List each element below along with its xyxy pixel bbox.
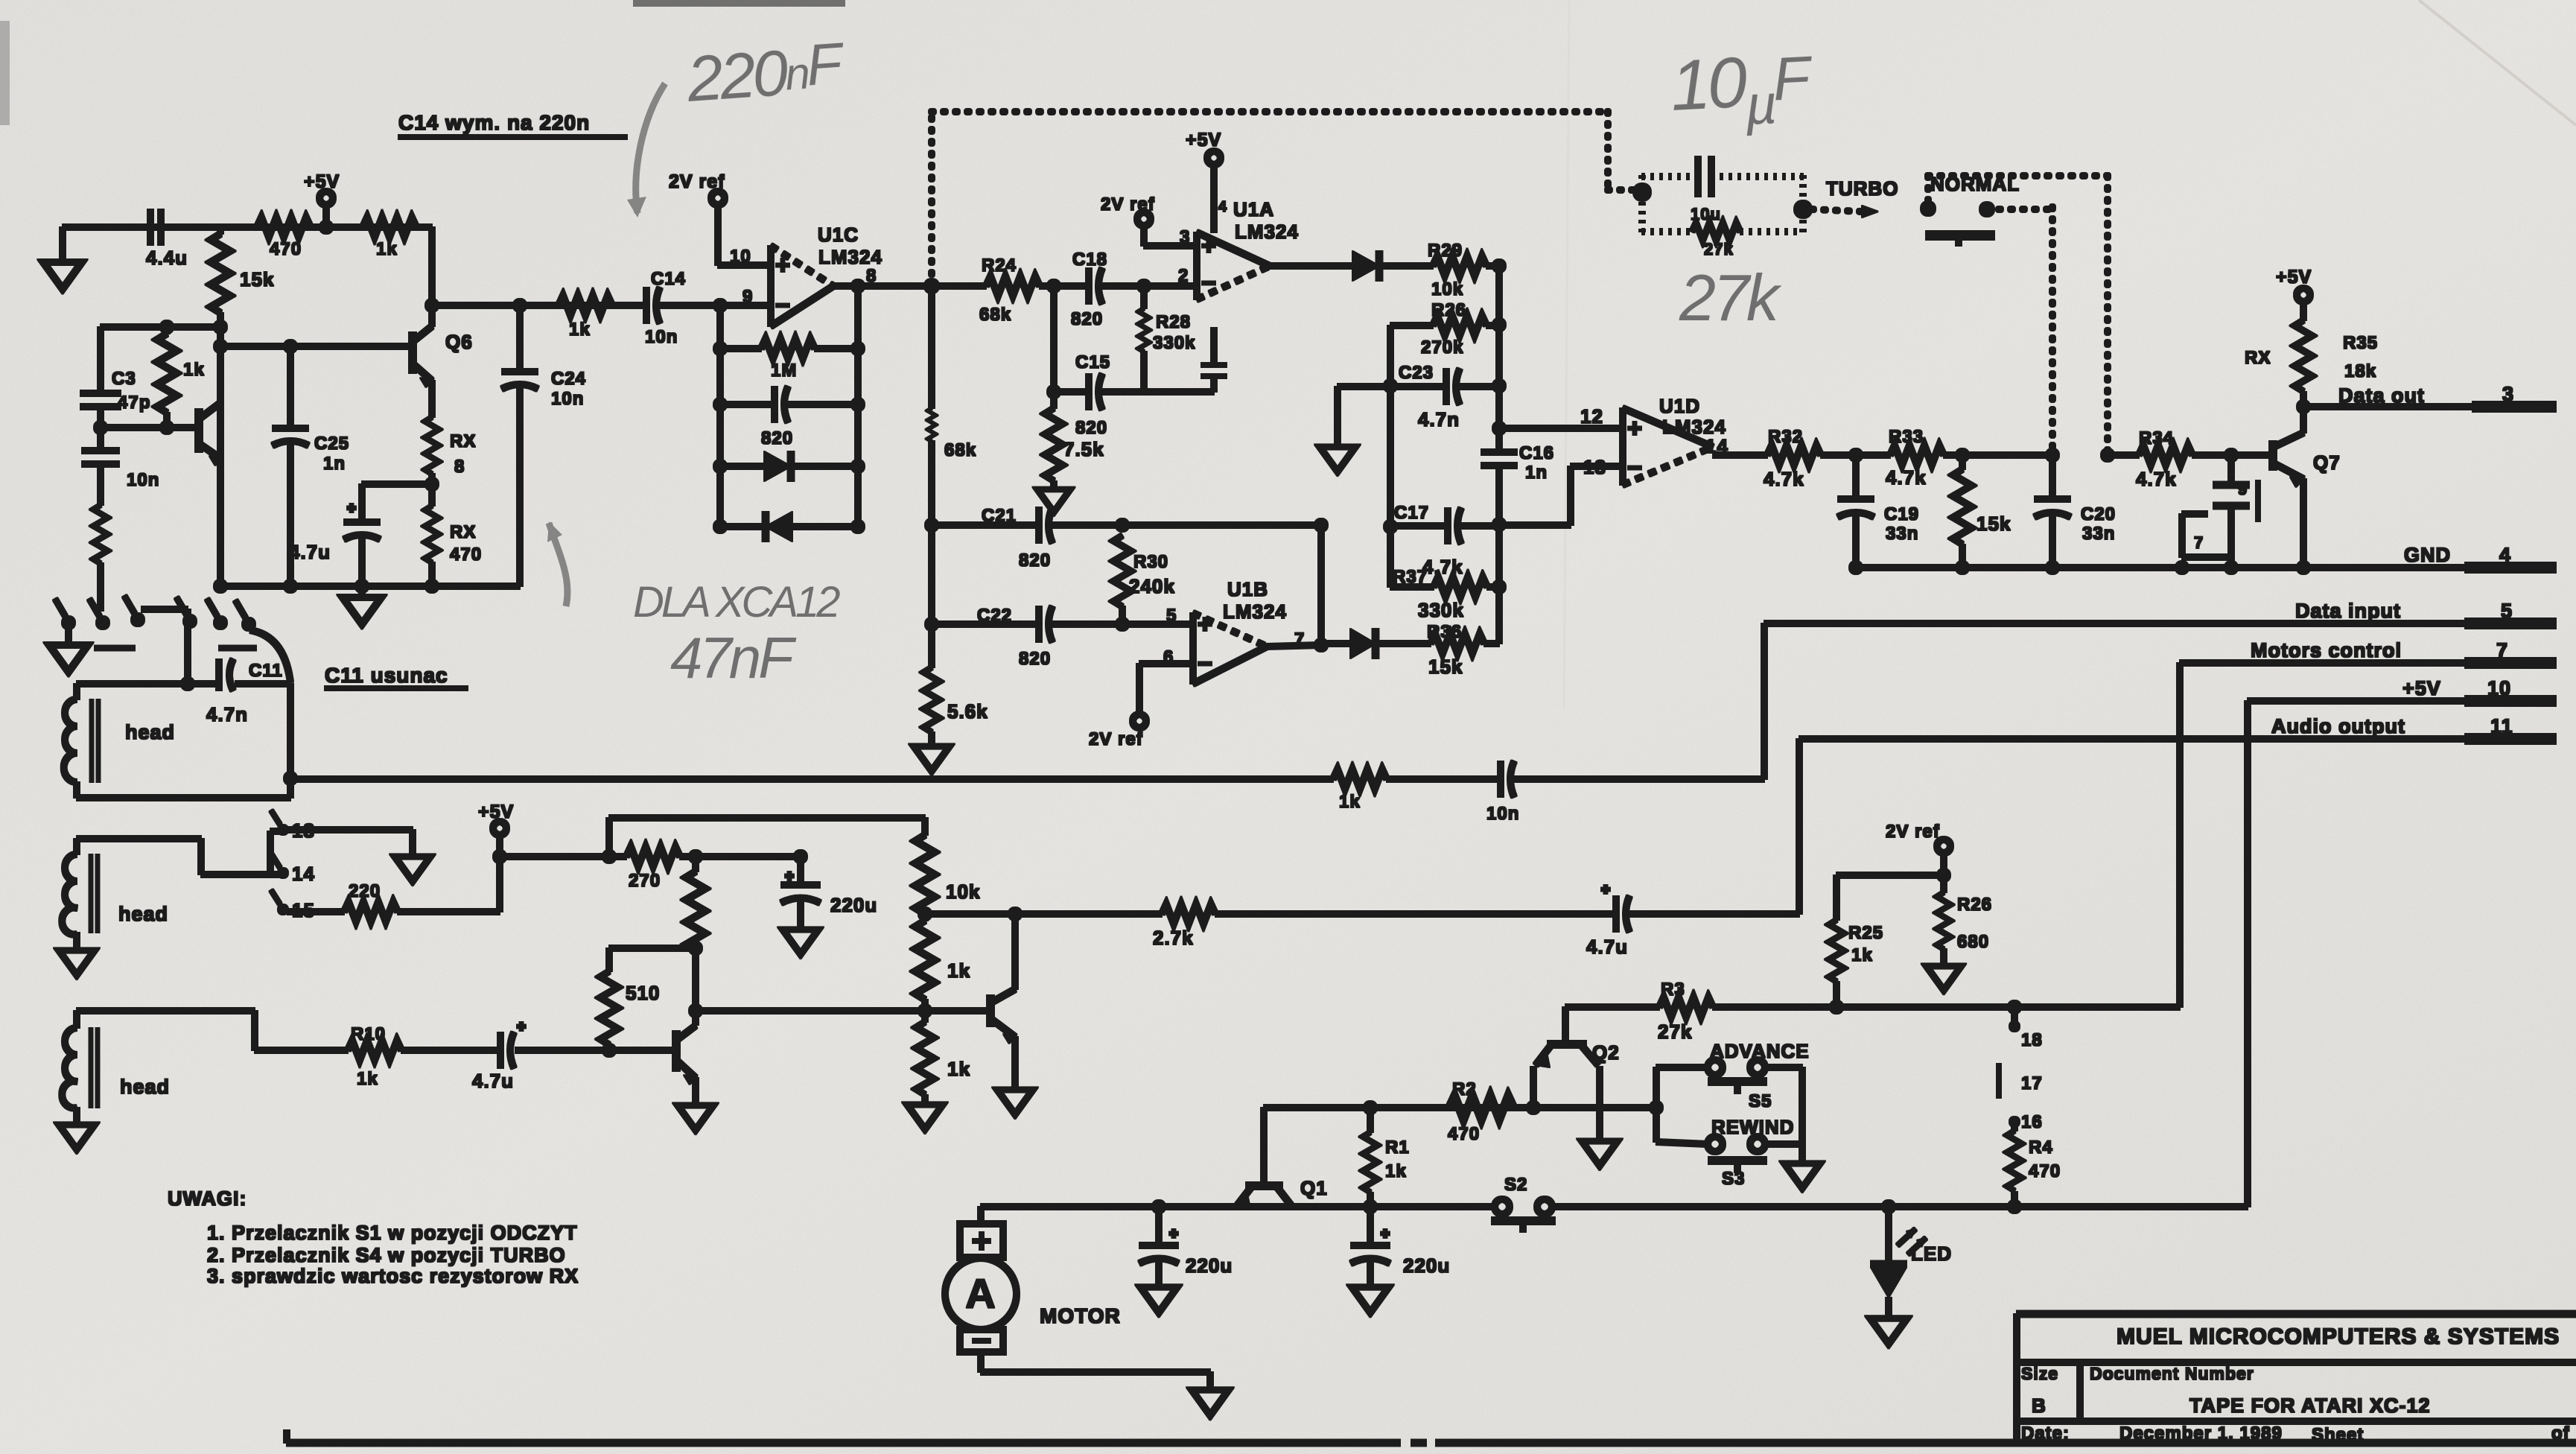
ground <box>678 1105 713 1130</box>
svg-text:C24: C24 <box>551 369 586 389</box>
svg-text:10n: 10n <box>127 470 159 490</box>
resistor R2 470 <box>1448 1079 1513 1144</box>
resistor 5.6k <box>923 667 988 745</box>
svg-text:8: 8 <box>866 266 877 286</box>
svg-text:4.7u: 4.7u <box>289 541 331 563</box>
svg-text:18: 18 <box>2021 1030 2043 1050</box>
ground pin13 <box>395 857 430 881</box>
ground under pin1 <box>49 629 88 672</box>
svg-text:1k: 1k <box>1851 945 1873 965</box>
svg-text:1k: 1k <box>183 360 205 380</box>
svg-text:U1C: U1C <box>818 223 859 246</box>
svg-text:3: 3 <box>1180 227 1190 247</box>
svg-text:8: 8 <box>454 457 465 477</box>
svg-text:C3: C3 <box>112 369 136 389</box>
resistor RX 470 <box>425 506 482 586</box>
capacitor 4.7u audio <box>1586 885 1799 958</box>
capacitor C24 10n <box>502 299 586 586</box>
svg-text:270k: 270k <box>1421 337 1463 358</box>
svg-text:470: 470 <box>270 239 302 259</box>
svg-text:R36: R36 <box>1427 622 1462 642</box>
motors control wire R3 <box>1565 980 2180 1043</box>
resistor 220 <box>287 857 500 921</box>
ground <box>1140 1287 1177 1312</box>
svg-text:+5V: +5V <box>304 171 340 192</box>
svg-text:1k: 1k <box>1339 792 1361 812</box>
svg-text:R29: R29 <box>1428 241 1463 261</box>
svg-text:470: 470 <box>450 545 482 565</box>
Data out bus 3 <box>2303 383 2556 407</box>
svg-text:10n: 10n <box>1486 804 1519 824</box>
head 1 box <box>64 677 290 798</box>
wire into inverting input <box>720 302 771 308</box>
svg-text:R37: R37 <box>1393 567 1428 587</box>
ground <box>783 930 818 954</box>
transistor Q5 <box>199 402 221 466</box>
wire riser audio output <box>1796 739 1802 914</box>
2V ref divider R25 / 680 <box>1836 822 1950 882</box>
svg-text:14: 14 <box>292 863 315 885</box>
svg-text:ADVANCE: ADVANCE <box>1710 1040 1810 1062</box>
wire pin13 to ground <box>287 830 413 855</box>
wire base Q6 <box>220 343 413 349</box>
resistor 1M feedback <box>713 339 865 381</box>
output wire U1C <box>833 283 986 289</box>
svg-text:1k: 1k <box>357 1069 378 1089</box>
svg-text:S3: S3 <box>1722 1169 1745 1189</box>
svg-text:1k: 1k <box>947 959 970 982</box>
ground <box>914 746 950 771</box>
transistor Q6 <box>413 326 473 387</box>
resistor R33 4.7k <box>1886 427 1944 489</box>
svg-text:2. Przelacznik S4 w pozycji TU: 2. Przelacznik S4 w pozycji TURBO <box>207 1244 566 1266</box>
svg-text:820: 820 <box>1019 649 1051 669</box>
svg-text:9: 9 <box>2238 480 2248 498</box>
resistor 15k vertical <box>1953 455 2011 568</box>
svg-text:Audio output: Audio output <box>2271 715 2405 737</box>
resistor 510 <box>600 942 702 1050</box>
+5V bus 10 <box>2248 677 2556 1207</box>
transistor Q4 <box>990 907 1022 1088</box>
base wire Q1 <box>1264 1101 1656 1114</box>
svg-text:27k: 27k <box>1679 261 1782 334</box>
svg-text:S2: S2 <box>1504 1175 1527 1195</box>
svg-text:5.6k: 5.6k <box>947 700 988 723</box>
svg-text:68k: 68k <box>944 440 976 460</box>
svg-text:Size: Size <box>2021 1364 2058 1383</box>
svg-text:4.7n: 4.7n <box>206 703 248 726</box>
svg-text:330k: 330k <box>1418 599 1464 621</box>
output wire U1D <box>1713 452 1767 458</box>
svg-text:330k: 330k <box>1153 333 1195 353</box>
svg-text:R32: R32 <box>1768 427 1803 447</box>
svg-text:240k: 240k <box>1129 575 1175 597</box>
connector pins row <box>55 596 256 648</box>
capacitor C14 10n <box>645 269 720 347</box>
LED <box>1871 1207 1952 1317</box>
wire stub to 4.7u <box>362 481 432 487</box>
pencil arrow to C14 <box>636 83 665 213</box>
resistor R29 10k <box>1428 241 1499 299</box>
resistor R37 330k <box>1390 567 1499 621</box>
svg-text:GND: GND <box>2404 544 2451 566</box>
svg-text:270: 270 <box>629 871 661 891</box>
svg-text:C17: C17 <box>1394 503 1429 523</box>
svg-text:Data input: Data input <box>2295 600 2401 622</box>
svg-text:10k: 10k <box>1431 279 1463 299</box>
svg-text:UWAGI:: UWAGI: <box>168 1187 247 1210</box>
svg-text:10n: 10n <box>645 327 678 347</box>
ground <box>1870 1318 1906 1344</box>
wire to C14 <box>432 302 646 308</box>
svg-text:Document Number: Document Number <box>2090 1364 2254 1383</box>
svg-text:220u: 220u <box>830 894 877 916</box>
svg-text:R30: R30 <box>1133 552 1168 572</box>
svg-text:C20: C20 <box>2081 504 2116 524</box>
svg-text:C15: C15 <box>1075 352 1110 372</box>
svg-text:4: 4 <box>1218 199 1227 215</box>
capacitor C18 820 <box>1071 250 1197 329</box>
capacitor 4.7u <box>472 1022 676 1092</box>
svg-text:10n: 10n <box>551 389 584 409</box>
capacitor 820p feedback <box>713 387 865 448</box>
svg-text:4.7k: 4.7k <box>1886 466 1927 489</box>
svg-text:TURBO: TURBO <box>1826 177 1898 200</box>
resistor 470 <box>257 218 311 259</box>
svg-text:B: B <box>2032 1394 2047 1417</box>
text C14 wym na 220n <box>398 111 627 137</box>
svg-text:S5: S5 <box>1749 1091 1772 1111</box>
svg-text:C21: C21 <box>982 506 1017 526</box>
dotted stub with arrow <box>1812 206 1878 218</box>
svg-text:17: 17 <box>2021 1073 2043 1093</box>
base wire with R10 and 4.7u <box>255 1047 348 1053</box>
transistor Q1 <box>1236 1108 1328 1209</box>
svg-text:TAPE FOR ATARI XC-12: TAPE FOR ATARI XC-12 <box>2189 1394 2431 1417</box>
ADVANCE / REWIND switch box <box>1650 1040 1810 1189</box>
svg-text:2.7k: 2.7k <box>1153 927 1194 949</box>
svg-text:C14: C14 <box>651 269 686 289</box>
+5V above U1A <box>1186 130 1227 232</box>
GND rail 4 <box>1849 544 2556 574</box>
resistor vertical left chain <box>93 505 107 563</box>
2V ref U1B <box>1089 664 1193 749</box>
pin 14 <box>271 854 315 885</box>
svg-text:1M: 1M <box>771 361 797 381</box>
+5V symbol <box>478 801 514 863</box>
op-amp U1C <box>742 223 882 326</box>
svg-text:U1A: U1A <box>1233 198 1274 220</box>
stub pin6 hook into head1 <box>250 630 290 682</box>
svg-text:820: 820 <box>1019 550 1051 571</box>
svg-text:5: 5 <box>1166 606 1177 626</box>
wire top rail <box>63 224 432 230</box>
svg-text:47nF: 47nF <box>670 625 797 691</box>
resistor R32 4.7k <box>1764 427 1821 490</box>
head 2 <box>62 831 279 949</box>
svg-text:510: 510 <box>626 982 660 1004</box>
svg-text:4.7n: 4.7n <box>1418 408 1460 431</box>
ground head2 <box>59 950 95 975</box>
svg-text:11: 11 <box>2490 715 2513 737</box>
resistor 15k <box>211 227 274 586</box>
capacitor C17 <box>1390 503 1499 578</box>
transistor Q7 <box>2273 407 2341 568</box>
resistor R25 1k <box>1829 875 1883 1014</box>
resistor 1k <box>1333 769 1387 812</box>
U1A output diode <box>1270 251 1433 281</box>
svg-text:3. sprawdzic wartosc rezystoro: 3. sprawdzic wartosc rezystorow RX <box>207 1265 579 1287</box>
ground <box>1582 1141 1618 1166</box>
svg-text:27k: 27k <box>1658 1020 1692 1043</box>
diode feedback right <box>713 451 865 481</box>
resistor 1k <box>363 218 416 259</box>
remote jack pins 18 17 16 <box>1999 1007 2043 1132</box>
svg-text:R28: R28 <box>1156 312 1191 332</box>
+5V supply symbol <box>304 171 340 227</box>
svg-text:+5V: +5V <box>2276 267 2312 288</box>
transistor Q2 <box>1533 1007 1620 1140</box>
wire pin3 jog to head box <box>141 609 188 684</box>
resistor R34 4.7k <box>2101 428 2273 490</box>
capacitor 220u motor <box>1139 1207 1233 1286</box>
capacitor C25 1n <box>273 346 349 586</box>
2V ref U1A <box>1101 194 1197 286</box>
ground <box>59 1125 95 1149</box>
capacitor C15 820 <box>1047 286 1144 438</box>
svg-text:15k: 15k <box>240 268 274 291</box>
svg-text:LM324: LM324 <box>1235 220 1299 243</box>
svg-text:R4: R4 <box>2029 1137 2053 1158</box>
svg-text:1k: 1k <box>569 320 591 340</box>
svg-text:Q2: Q2 <box>1592 1041 1620 1064</box>
wire <box>101 324 220 330</box>
svg-text:head: head <box>120 1076 170 1098</box>
resistor 7.5k <box>1045 408 1104 488</box>
resistor R30 240k <box>1113 536 1175 624</box>
resistor 2.7k <box>1153 904 1215 949</box>
svg-text:1k: 1k <box>1385 1161 1407 1181</box>
svg-text:R10: R10 <box>351 1024 386 1044</box>
svg-text:15k: 15k <box>1976 512 2011 535</box>
resistor R28 330k <box>1139 286 1214 392</box>
node <box>160 320 174 334</box>
wire long to data input riser <box>290 776 1333 782</box>
pin 15 <box>271 890 315 921</box>
resistor R26 270k <box>1390 300 1499 358</box>
svg-text:4.7u: 4.7u <box>1586 936 1628 958</box>
svg-text:MOTOR: MOTOR <box>1040 1304 1121 1327</box>
svg-text:4.7k: 4.7k <box>1422 556 1463 578</box>
sheet bottom border <box>287 1430 2576 1443</box>
svg-text:C25: C25 <box>314 434 349 454</box>
switch S1 pads <box>2182 455 2258 568</box>
svg-text:U1D: U1D <box>1659 395 1700 417</box>
transistor Q3 mute <box>676 1026 696 1104</box>
svg-text:C14 wym. na 220n: C14 wym. na 220n <box>398 111 590 134</box>
svg-text:820: 820 <box>1075 418 1107 438</box>
resistor 1k lower <box>916 1022 970 1103</box>
svg-text:18k: 18k <box>2344 361 2376 381</box>
svg-text:head: head <box>118 903 168 925</box>
svg-text:1n: 1n <box>323 454 346 474</box>
motor supply rail <box>981 1200 2248 1213</box>
svg-text:R24: R24 <box>982 255 1017 276</box>
resistor 270 <box>626 847 801 891</box>
svg-text:1n: 1n <box>1525 463 1548 483</box>
resistor R10 1k <box>348 1024 401 1089</box>
svg-text:RX: RX <box>450 431 476 451</box>
resistor R4 470 <box>2007 1122 2061 1213</box>
svg-text:R1: R1 <box>1385 1137 1410 1158</box>
Motors control bus 7 <box>2180 639 2556 1007</box>
svg-text:220u: 220u <box>1403 1254 1450 1277</box>
+5V and resistor R35 <box>2245 267 2378 413</box>
resistor R24 68k <box>979 255 1040 325</box>
svg-text:R26: R26 <box>1431 300 1466 320</box>
svg-text:4.7k: 4.7k <box>2136 468 2177 490</box>
ground left <box>43 227 82 289</box>
svg-text:10u: 10u <box>1691 205 1721 223</box>
svg-text:1k: 1k <box>376 239 398 259</box>
capacitor 4.4u <box>146 209 188 269</box>
capacitor 4.7u polarized <box>289 484 380 586</box>
svg-text:3: 3 <box>2502 383 2514 405</box>
resistor RX 8 <box>425 381 477 506</box>
svg-text:2V ref: 2V ref <box>1886 822 1940 842</box>
ground <box>1784 1163 1820 1188</box>
dotted box around NORMAL <box>1928 176 2108 201</box>
svg-text:68k: 68k <box>979 305 1011 325</box>
ground <box>1037 489 1070 512</box>
svg-text:4.7k: 4.7k <box>1764 468 1804 490</box>
capacitor 10n <box>82 428 159 505</box>
right rail with C16 <box>1481 266 1554 644</box>
resistor 68k vertical <box>928 286 977 667</box>
head 3 <box>62 1011 255 1123</box>
resistor 680 to ground <box>1937 875 1992 965</box>
svg-text:220: 220 <box>349 881 381 901</box>
resistor chain 10k <box>915 835 980 914</box>
capacitor C3 47p <box>80 327 150 428</box>
diode + resistor R36 <box>1321 622 1499 678</box>
svg-text:MUEL MICROCOMPUTERS & SYSTEMS: MUEL MICROCOMPUTERS & SYSTEMS <box>2117 1324 2560 1349</box>
svg-text:10k: 10k <box>946 880 980 903</box>
svg-text:LM324: LM324 <box>818 246 882 268</box>
ground <box>1352 1287 1388 1312</box>
wire riser upper <box>609 818 925 857</box>
resistor vertical at mute <box>686 857 705 1025</box>
svg-text:RX: RX <box>450 522 476 542</box>
svg-text:16: 16 <box>2021 1112 2043 1132</box>
junction +5V on rail <box>319 220 333 234</box>
svg-text:U1B: U1B <box>1227 578 1268 600</box>
wire C22 <box>932 606 1193 669</box>
svg-text:1k: 1k <box>947 1058 970 1080</box>
svg-text:RX: RX <box>2245 348 2271 368</box>
dotted wire from U1C output <box>932 112 2108 455</box>
svg-text:13: 13 <box>1583 456 1606 478</box>
resistor 1k <box>559 296 612 340</box>
wire pin13 L <box>1499 456 1623 525</box>
svg-text:C11: C11 <box>249 661 283 681</box>
op-amp U1A <box>1197 198 1299 299</box>
svg-text:470: 470 <box>1448 1124 1480 1144</box>
pin 13 <box>271 810 315 842</box>
svg-text:R35: R35 <box>2343 333 2378 353</box>
svg-text:R34: R34 <box>2139 428 2174 448</box>
capacitor 220u <box>781 857 877 928</box>
ground <box>343 586 381 624</box>
resistor R1 1k <box>1363 1108 1410 1207</box>
svg-text:12: 12 <box>1580 405 1603 428</box>
svg-text:C16: C16 <box>1519 443 1554 463</box>
capacitor C23 4.7n <box>1338 363 1499 431</box>
svg-text:R2: R2 <box>1452 1079 1477 1099</box>
svg-text:220u: 220u <box>1186 1254 1233 1277</box>
svg-text:A: A <box>965 1270 996 1317</box>
switch S4 contacts <box>1921 201 1994 246</box>
svg-text:2V ref: 2V ref <box>1089 729 1143 749</box>
svg-text:C22: C22 <box>977 606 1012 626</box>
svg-text:4: 4 <box>2499 544 2511 566</box>
svg-text:7: 7 <box>2496 639 2508 661</box>
Data input bus 5 <box>1764 600 2556 779</box>
svg-text:680: 680 <box>1957 932 1989 952</box>
feedback rails <box>717 305 723 527</box>
svg-text:27k: 27k <box>1704 240 1734 258</box>
text C11 usunac <box>325 664 468 688</box>
svg-text:2: 2 <box>1178 266 1189 286</box>
wire 2.7k audio line <box>925 911 1162 917</box>
wire <box>95 425 199 431</box>
op-amp U1B <box>1163 578 1305 684</box>
svg-text:Motors control: Motors control <box>2251 639 2402 661</box>
capacitor 10u / resistor 27k combo <box>1633 156 1812 258</box>
svg-text:470: 470 <box>2029 1161 2061 1181</box>
left rail <box>1387 326 1393 587</box>
svg-text:Q6: Q6 <box>445 331 473 353</box>
svg-text:R3: R3 <box>1661 980 1685 1000</box>
U1B output <box>1267 525 1328 652</box>
svg-text:REWIND: REWIND <box>1711 1116 1794 1138</box>
svg-text:4.4u: 4.4u <box>146 247 188 269</box>
svg-text:C19: C19 <box>1884 504 1919 524</box>
ground <box>907 1105 943 1129</box>
pin11 cap stub <box>1201 328 1227 392</box>
svg-text:R25: R25 <box>1848 923 1883 943</box>
svg-text:+5V: +5V <box>478 801 514 822</box>
wire collector riser <box>429 227 435 326</box>
wire <box>500 854 626 860</box>
svg-text:33n: 33n <box>1886 524 1918 544</box>
resistor 1k vertical <box>157 327 205 428</box>
capacitor C11 4.7n <box>206 659 283 726</box>
op-amp U1D <box>1623 395 1729 485</box>
ground <box>1927 966 1962 990</box>
svg-text:7.5k: 7.5k <box>1063 438 1104 460</box>
ground <box>1192 1390 1228 1415</box>
motor <box>945 1207 1210 1388</box>
wire C21 <box>932 506 1321 571</box>
svg-text:LM324: LM324 <box>1223 600 1287 623</box>
Audio output bus 11 <box>1799 715 2556 739</box>
svg-text:33n: 33n <box>2082 524 2115 544</box>
svg-text:R26: R26 <box>1957 895 1992 915</box>
wire pin12 <box>1499 405 1623 428</box>
svg-text:C23: C23 <box>1399 363 1434 383</box>
svg-text:Q1: Q1 <box>1300 1177 1328 1199</box>
